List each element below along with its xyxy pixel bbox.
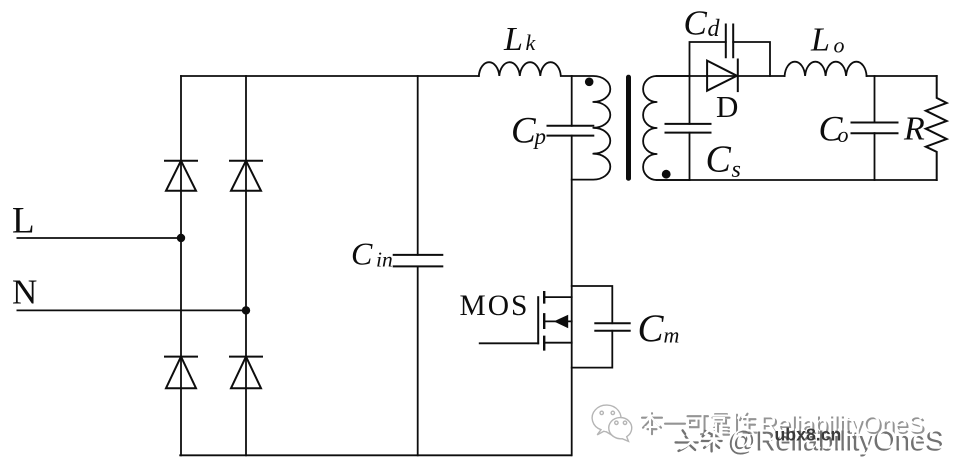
transistor MOS: drain/body/source stubs — [544, 297, 572, 343]
svg-text:d: d — [708, 16, 721, 42]
wire: right bridge leg — [245, 76, 247, 455]
transformer secondary winding — [643, 76, 689, 180]
watermark: line 1 highlight — [640, 411, 924, 438]
node: secondary polarity dot — [662, 170, 671, 179]
node: N junction dot — [242, 306, 250, 314]
wire: gate lead — [480, 342, 539, 344]
diode: bridge upper-left — [165, 161, 197, 191]
svg-text:k: k — [526, 30, 537, 55]
svg-text:C: C — [706, 139, 732, 181]
svg-text:C: C — [511, 111, 537, 152]
watermark: WeChat icon — [592, 405, 632, 441]
capacitor Co leads — [874, 76, 876, 180]
wire: Cd snubber loop — [690, 42, 771, 76]
svg-text:C: C — [684, 3, 708, 42]
svg-text:m: m — [664, 323, 680, 348]
wire: N input — [17, 309, 246, 311]
transformer primary winding — [572, 76, 611, 180]
capacitor Cs leads — [689, 76, 691, 180]
node: primary polarity dot — [585, 78, 594, 87]
svg-text:L: L — [12, 201, 35, 242]
capacitor Cm plates — [595, 323, 629, 331]
capacitor Cin vertical leads — [417, 76, 419, 455]
capacitor Cs plates — [666, 124, 711, 133]
resistor R — [926, 76, 947, 180]
diode: bridge lower-left — [165, 357, 197, 389]
wire: Cm loop — [572, 286, 613, 368]
svg-text:R: R — [903, 111, 925, 148]
watermark: line 2 highlight — [678, 423, 946, 454]
svg-text:s: s — [732, 157, 741, 183]
transistor MOS: channel bars — [543, 292, 545, 349]
svg-text:C: C — [638, 307, 665, 350]
svg-text:L: L — [503, 21, 523, 58]
transistor MOS: body-diode arrow — [554, 315, 568, 328]
capacitor Cp plates — [548, 126, 594, 136]
svg-text:o: o — [834, 33, 845, 58]
wire: left bridge leg upper — [180, 76, 182, 455]
wire: main switch-node vertical (Lk junction down through Cp to MOS/source and bottom bus) — [571, 76, 573, 455]
diode: bridge upper-right — [230, 161, 262, 191]
wire: L input — [17, 237, 181, 239]
svg-text:D: D — [716, 89, 738, 124]
svg-text:L: L — [810, 22, 830, 59]
svg-text:in: in — [376, 248, 393, 272]
inductor Lk — [479, 62, 572, 76]
wire: secondary top rail — [657, 75, 937, 77]
wire: top bus from bridge to Lk — [181, 75, 479, 77]
svg-text:C: C — [351, 236, 373, 272]
svg-text:ubx8.cn: ubx8.cn — [775, 425, 842, 445]
capacitor Cd plates — [726, 25, 733, 58]
svg-text:N: N — [12, 273, 37, 312]
capacitor Cin plates — [394, 255, 443, 267]
diode D — [707, 60, 738, 92]
svg-text:p: p — [533, 124, 547, 149]
svg-text:MOS: MOS — [460, 290, 530, 322]
wire: secondary bottom rail — [657, 179, 937, 181]
wire: bottom bus — [180, 454, 571, 456]
node: L junction dot — [177, 234, 185, 242]
watermark: line 1 shadow — [642, 413, 926, 440]
svg-text:o: o — [838, 122, 849, 147]
transistor MOS: gate plate — [537, 297, 539, 343]
inductor Lo — [785, 62, 867, 76]
diode: bridge lower-right — [230, 357, 262, 389]
capacitor Co plates — [852, 123, 898, 134]
watermark: line 2 shadow — [676, 426, 944, 457]
transformer core — [626, 75, 631, 181]
